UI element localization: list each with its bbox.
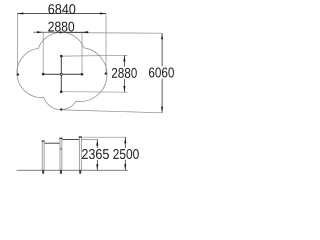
arrow 2880 top-right (outside, pointing left) [82, 31, 88, 33]
post 2 outline [59, 138, 61, 170]
arrow 2880 right bottom [123, 86, 125, 92]
post 3 cap [79, 136, 82, 137]
dimension 6060 line (broken by text) [161, 33, 163, 66]
extension line 6840 right [105, 14, 107, 74]
arrow 2500 top [124, 137, 126, 143]
arrow 6840 right [100, 12, 106, 14]
beam 2 [63, 139, 80, 140]
label 6840 [48, 4, 75, 14]
beam 1 [45, 143, 60, 144]
zone extreme dot left [17, 73, 19, 75]
climber cross beam horizontal [43, 73, 82, 75]
label 2880 right [112, 68, 137, 78]
extension line 6060 top (from zone top right) [62, 32, 162, 35]
dimension 6840 line [17, 13, 106, 15]
extension line 6840 left [17, 14, 19, 75]
arrow 6060 top [161, 33, 163, 39]
arrow 2880 right top [123, 55, 125, 61]
arrow 2365 bottom [96, 164, 98, 170]
arrow 6840 left [17, 12, 23, 14]
climber cross beam vertical [60, 56, 62, 92]
post 2 joint tick [60, 148, 62, 149]
label 2500 [113, 149, 139, 159]
post 3 outline [78, 137, 80, 171]
arrow 2500 bottom [124, 164, 126, 170]
post dot top [60, 55, 63, 58]
dimension 2500 line (broken by text) [124, 137, 126, 148]
arrow 2365 top [96, 140, 98, 146]
post 1 cap [42, 140, 45, 141]
safety zone quatrefoil outline [17, 32, 107, 109]
dimension 2880 top line [34, 31, 89, 33]
extension line 2880 top-left (from left post up) [42, 32, 44, 73]
post 1 footing [42, 170, 44, 174]
post 3 footing [79, 170, 81, 174]
dimension 2365 line (broken by text) [96, 140, 98, 148]
zone extreme dot bottom [60, 108, 62, 110]
zone extreme dot top [59, 31, 61, 33]
extension line 6060 bottom (from zone bottom right) [62, 110, 162, 113]
post 2 cap [59, 138, 62, 139]
post dot bottom [60, 91, 63, 94]
post dot left [42, 73, 45, 76]
label 2880 top [48, 22, 74, 32]
center post open circle [60, 73, 62, 75]
extension line 2880 right-bottom (from bottom post right) [63, 91, 128, 94]
extension line 2880 right-top (from top post right) [63, 54, 128, 57]
label 6060 [149, 68, 174, 78]
extension line 2500 top [83, 136, 127, 138]
post 2 footing [60, 170, 62, 174]
post 1 left outline [41, 141, 43, 170]
extension line 2880 top-right (from right post up) [81, 32, 83, 74]
arrow 2880 top-left (outside, pointing right) [37, 31, 43, 33]
zone extreme dot right [105, 72, 107, 74]
label 2365 [82, 149, 109, 159]
post dot right [81, 73, 84, 76]
dimension 2880 right line (broken by text) [123, 55, 125, 66]
ground line [17, 169, 129, 171]
arrow 6060 bottom [161, 107, 163, 113]
extension line 2365 top [82, 139, 98, 141]
